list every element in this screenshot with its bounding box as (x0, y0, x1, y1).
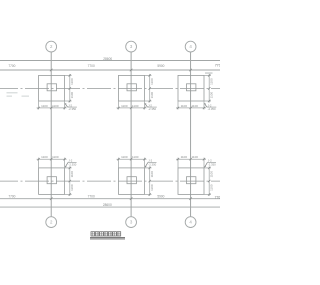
svg-text:1100: 1100 (52, 155, 59, 159)
svg-text:1100: 1100 (132, 104, 139, 108)
svg-text:7700: 7700 (8, 64, 15, 68)
svg-text:1100: 1100 (150, 78, 154, 85)
svg-text:1100: 1100 (209, 184, 213, 191)
svg-text:-2.350: -2.350 (208, 107, 216, 111)
svg-text:7700: 7700 (215, 196, 220, 200)
svg-text:5900: 5900 (157, 195, 164, 199)
svg-text:1100: 1100 (150, 171, 154, 178)
svg-text:7700: 7700 (88, 195, 95, 199)
svg-text:-2.350: -2.350 (148, 107, 156, 111)
svg-text:1100: 1100 (121, 155, 128, 159)
svg-text:-2.350: -2.350 (68, 162, 76, 166)
svg-text:1100: 1100 (121, 104, 128, 108)
svg-text:1100: 1100 (70, 92, 74, 99)
svg-text:1100: 1100 (191, 104, 198, 108)
svg-text:-2.350: -2.350 (148, 162, 156, 166)
svg-text:5900: 5900 (157, 64, 164, 68)
svg-text:1100: 1100 (70, 171, 74, 178)
svg-text:-2.350: -2.350 (68, 107, 76, 111)
svg-text:1100: 1100 (41, 155, 48, 159)
svg-text:1100: 1100 (181, 155, 188, 159)
svg-text:1100: 1100 (181, 104, 188, 108)
svg-text:1100: 1100 (70, 78, 74, 85)
svg-text:1100: 1100 (150, 92, 154, 99)
svg-text:7700: 7700 (88, 64, 95, 68)
svg-text:1100: 1100 (52, 104, 59, 108)
svg-text:1100: 1100 (191, 155, 198, 159)
svg-text:1100: 1100 (41, 104, 48, 108)
svg-text:7700: 7700 (215, 63, 220, 67)
svg-text:1100: 1100 (70, 184, 74, 191)
svg-text:1100: 1100 (209, 171, 213, 178)
svg-text:1100: 1100 (132, 155, 139, 159)
svg-text:-2.350: -2.350 (208, 162, 216, 166)
svg-text:1100: 1100 (150, 184, 154, 191)
svg-text:28600: 28600 (103, 203, 112, 207)
svg-text:7700: 7700 (8, 195, 15, 199)
svg-text:1100: 1100 (209, 92, 213, 99)
svg-text:28600: 28600 (103, 57, 112, 61)
svg-text:1100: 1100 (209, 78, 213, 85)
